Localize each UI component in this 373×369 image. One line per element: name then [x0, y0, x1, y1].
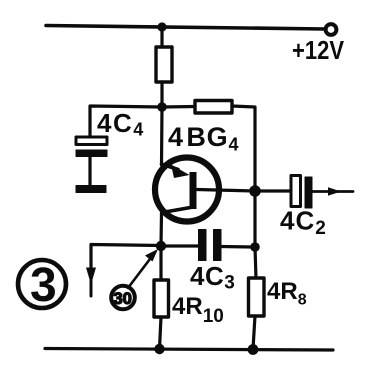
resistor (unlabeled, feedback)	[195, 101, 232, 114]
resistor 4R8	[249, 278, 265, 316]
capacitor C3 right plate	[214, 230, 222, 261]
wire node D to resistor 4R8	[255, 247, 256, 278]
C4 end bar	[76, 186, 106, 193]
capacitor C4 bottom plate (solid)	[76, 150, 107, 157]
node C junction (161,246)	[156, 241, 166, 251]
wire node C to 4R10	[159, 246, 162, 280]
arrow from label 30 to node C	[128, 255, 153, 288]
capacitor C2 left plate (hollow)	[291, 176, 301, 207]
wire top resistor to node A	[160, 82, 163, 107]
input arrow down	[90, 267, 93, 296]
wire node C to C3	[161, 244, 198, 247]
wire C4 lower lead	[88, 157, 91, 186]
wire base to node B	[197, 190, 255, 192]
svg-text:+12V: +12V	[292, 35, 345, 65]
node D junction (255,247)	[250, 242, 260, 252]
transistor base bar	[190, 172, 197, 209]
wire node B down to node D	[253, 191, 256, 247]
node A junction (162,107)	[157, 102, 167, 112]
node junction top (162,27)	[157, 22, 166, 31]
resistor 4R10	[154, 280, 169, 317]
svg-text:3: 3	[30, 259, 57, 312]
wire output with arrow	[312, 190, 353, 193]
wire C3 to node D	[221, 245, 252, 249]
wire node A to 4C4	[90, 106, 162, 137]
svg-text:4R10: 4R10	[172, 293, 224, 327]
wire node C to input stub	[91, 245, 161, 268]
wire 4R10 to bottom rail	[160, 317, 162, 349]
junction bottom left (159,349)	[154, 344, 164, 354]
wire bottom rail	[45, 349, 333, 351]
terminal +12V	[326, 24, 337, 35]
svg-text:4R8: 4R8	[267, 278, 307, 309]
capacitor C3 left plate	[199, 230, 207, 261]
junction bottom right (253,349.5)	[248, 344, 259, 355]
svg-text:4C3: 4C3	[190, 261, 235, 294]
wire 4R8 to bottom rail	[253, 316, 255, 349]
node label 30 (circled with arrow)	[111, 286, 135, 310]
svg-text:4C2: 4C2	[280, 206, 327, 240]
svg-text:30: 30	[114, 290, 132, 308]
wire node A down to transistor emitter	[160, 107, 164, 165]
wire top +12V rail	[46, 26, 325, 30]
wire collector to node C	[159, 213, 163, 247]
capacitor C4 top plate (hollow)	[76, 137, 107, 145]
transistor collector line	[162, 208, 191, 213]
section label 3 (circled)	[18, 260, 66, 308]
node B junction (255,191)	[249, 185, 261, 197]
svg-text:4C4: 4C4	[97, 108, 145, 140]
wire resistor to right branch corner	[232, 106, 255, 188]
wire rail to top resistor	[160, 27, 163, 47]
transistor BG4 circle	[155, 158, 219, 222]
wire node A right to base resistor	[162, 105, 195, 109]
wire node B to 4C2	[255, 189, 291, 192]
resistor (unlabeled, collector feed)	[156, 47, 172, 82]
capacitor C2 right plate (solid)	[305, 177, 312, 208]
svg-text:4BG4: 4BG4	[168, 122, 239, 155]
transistor emitter line with arrow into base	[162, 164, 179, 170]
